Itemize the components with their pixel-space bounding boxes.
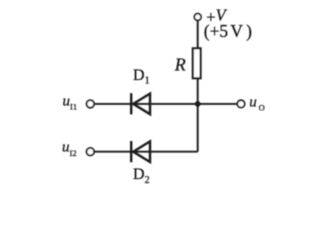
input terminal u_I1 xyxy=(87,100,95,108)
wire: resistor bottom to node xyxy=(197,79,199,105)
input terminal u_I2 xyxy=(87,148,95,156)
svg-text:uO: uO xyxy=(249,94,264,112)
diode D2 xyxy=(131,141,150,162)
resistor R xyxy=(193,48,201,78)
wire: row 1 horizontal from input u_I1 through D1 to output xyxy=(95,103,238,105)
output terminal u_O xyxy=(237,100,244,107)
svg-text:uI1: uI1 xyxy=(63,93,78,111)
diode D1 xyxy=(131,93,150,114)
svg-text:R: R xyxy=(174,55,186,75)
svg-text:D2: D2 xyxy=(133,166,150,186)
svg-text:(+5 V): (+5 V) xyxy=(204,21,252,41)
power terminal +V xyxy=(194,14,201,21)
node (junction dot) xyxy=(195,101,201,107)
svg-text:D1: D1 xyxy=(133,67,150,87)
wire: supply vertical from +V terminal to resistor xyxy=(197,21,199,49)
wire: riser from row 2 up to node xyxy=(197,104,199,152)
wire: row 2 horizontal from input u_I2 through D2 to junction riser xyxy=(95,151,198,153)
svg-text:uI2: uI2 xyxy=(62,140,77,158)
